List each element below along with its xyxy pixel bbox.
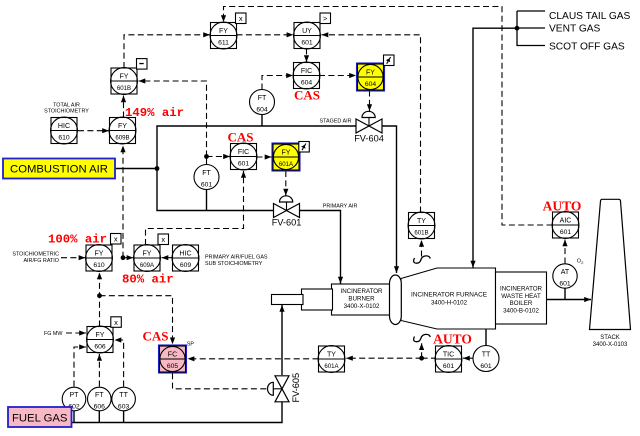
instrument FY 609B <box>109 117 136 144</box>
instrument FY 604 <box>357 63 384 90</box>
wire FT601 process tap <box>206 190 208 211</box>
signal junction to FIC601 <box>207 156 231 158</box>
label PRIMARY AIR <box>323 204 358 210</box>
signal junction over down to FC605 <box>100 296 173 345</box>
svg-text:UY: UY <box>302 28 312 35</box>
valve FV-604 staged air <box>354 111 384 143</box>
label CLAUS TAIL GAS <box>549 11 631 22</box>
instrument HIC 610 <box>51 117 78 144</box>
svg-text:TT: TT <box>482 351 491 358</box>
vessel incinerator furnace 3400-H-0102 <box>401 268 496 329</box>
label AUTO near AIC601 <box>543 199 582 214</box>
function box high-select for UY601 <box>320 13 331 24</box>
instrument FY 606 <box>87 326 114 353</box>
svg-text:BURNER: BURNER <box>348 296 375 303</box>
svg-text:FV-601: FV-601 <box>272 218 302 228</box>
label AUTO near TIC601 <box>433 332 472 347</box>
function box multiply for FY611 <box>236 13 247 24</box>
svg-text:601: 601 <box>443 363 455 370</box>
svg-text:FT: FT <box>95 392 104 399</box>
instrument FT 606 <box>88 387 112 411</box>
svg-text:PRIMARY AIR: PRIMARY AIR <box>323 204 358 210</box>
signal FT601 to junction <box>206 157 208 165</box>
svg-text:603: 603 <box>118 403 130 410</box>
valve FV-605 fuel gas <box>268 373 302 403</box>
svg-text:TT: TT <box>119 392 128 399</box>
svg-text:FY: FY <box>219 28 228 35</box>
valve FV-601 primary air <box>272 196 302 228</box>
svg-text:601: 601 <box>238 161 250 168</box>
svg-text:149% air: 149% air <box>125 106 184 120</box>
svg-text:601: 601 <box>559 280 571 287</box>
signal junction up to thermocouple <box>421 343 423 358</box>
signal TIC601 junction to TY601A <box>346 357 422 359</box>
svg-text:100% air: 100% air <box>48 233 107 247</box>
signal FY601B up over to FY611 <box>124 35 210 68</box>
svg-text:3400-X-0102: 3400-X-0102 <box>344 303 380 310</box>
node junction FY610 output <box>121 255 126 260</box>
signal HIC610 to FY609B <box>78 130 109 132</box>
label 80% air <box>122 273 174 287</box>
wire combined gas line to furnace <box>473 28 517 267</box>
label CAS near FC605 <box>142 329 168 344</box>
wire TT601 furnace tap <box>485 329 487 346</box>
svg-text:FV-604: FV-604 <box>354 134 384 144</box>
svg-text:604: 604 <box>301 80 313 87</box>
svg-text:TIC: TIC <box>443 351 454 358</box>
svg-text:x: x <box>114 234 118 243</box>
label CAS near FIC604 <box>294 88 320 103</box>
instrument FY 611 <box>210 22 237 49</box>
signal junction to FY609A <box>123 257 133 259</box>
wire TT603 tap <box>123 411 125 423</box>
signal FY611 to UY601 <box>237 34 294 36</box>
signal TT603 to FY606 <box>115 340 124 387</box>
svg-text:AT: AT <box>561 269 570 276</box>
instrument TY 601B <box>408 212 435 239</box>
svg-text:FY: FY <box>142 250 151 257</box>
instrument FIC 604 <box>293 62 320 89</box>
instrument TT 601 <box>473 346 499 372</box>
svg-text:FUEL GAS: FUEL GAS <box>12 413 68 425</box>
svg-text:604: 604 <box>256 106 268 113</box>
node gas header junction <box>515 26 520 31</box>
label STAGED AIR <box>320 119 352 125</box>
signal AIC601 bus to FY611 <box>224 7 553 226</box>
vessel stack 3400-X-0103 <box>590 199 631 348</box>
label STOICHIOMETRIC AIR/FG RATIO <box>12 251 59 263</box>
wire gas header bracket <box>517 11 545 46</box>
signal FY610 up to FY609B <box>122 146 124 258</box>
signal ratio setpoint to FY610 <box>61 257 85 259</box>
svg-text:601: 601 <box>201 181 213 188</box>
svg-text:INCINERATOR FURNACE: INCINERATOR FURNACE <box>411 291 487 298</box>
signal PT602 to FY606 <box>74 347 86 387</box>
instrument UY 601 <box>294 22 321 49</box>
svg-text:AUTO: AUTO <box>433 332 472 347</box>
wire AT601 stack tap <box>564 264 566 300</box>
wire primary air from FV-601 to burner top <box>298 211 341 284</box>
node junction TIC input <box>419 356 424 361</box>
svg-text:BOILER: BOILER <box>510 300 533 307</box>
svg-text:FG MW: FG MW <box>44 331 63 337</box>
signal thermocouple up to TY601B <box>421 240 423 257</box>
signal FT606 to FY606 <box>98 354 100 387</box>
signal HIC609 to FY609A <box>162 257 173 259</box>
svg-text:601A: 601A <box>279 161 294 168</box>
wire FT604 process tap <box>261 115 263 127</box>
svg-text:STACK: STACK <box>600 335 620 341</box>
svg-text:>: > <box>323 14 328 23</box>
signal FY604 to FV-604 actuator <box>369 91 371 112</box>
svg-text:FIC: FIC <box>238 149 249 156</box>
svg-text:FY: FY <box>281 149 290 156</box>
signal FC605 to FV-605 actuator <box>173 373 268 389</box>
svg-text:3400-H-0102: 3400-H-0102 <box>431 299 468 306</box>
signal AT601 up to AIC601 <box>564 240 566 264</box>
function box multiply for FY610 <box>111 234 122 245</box>
function box valve-char for FY601A <box>299 142 310 153</box>
label O2 analyzer <box>577 258 584 265</box>
svg-text:609B: 609B <box>115 135 129 142</box>
signal TY601B up over to UY601 <box>322 35 421 213</box>
svg-text:STOICHIOMETRY: STOICHIOMETRY <box>44 109 89 115</box>
signal FY601A to FV-601 actuator <box>285 171 287 196</box>
instrument FY 601A <box>272 143 299 170</box>
svg-text:FY: FY <box>94 250 103 257</box>
svg-text:TY: TY <box>327 351 336 358</box>
svg-text:SUB STOICHIOMETRY: SUB STOICHIOMETRY <box>205 261 263 267</box>
svg-text:610: 610 <box>93 262 105 269</box>
svg-text:SCOT OFF GAS: SCOT OFF GAS <box>549 42 625 53</box>
svg-text:601: 601 <box>480 363 492 370</box>
svg-text:2: 2 <box>581 260 583 265</box>
function box multiply for FY606 <box>111 317 122 328</box>
instrument FY 601B <box>111 68 138 95</box>
node combustion air junction <box>155 166 160 171</box>
function box multiply for FY609A <box>158 234 169 245</box>
instrument FT 604 <box>250 90 275 115</box>
function box minus for FY601B <box>137 59 148 70</box>
svg-text:HIC: HIC <box>58 123 70 130</box>
node junction FY606 output <box>97 293 102 298</box>
signal TT601 to TIC601 <box>463 357 473 359</box>
svg-text:601: 601 <box>301 40 313 47</box>
svg-text:601B: 601B <box>117 85 131 92</box>
wire combustion air supply line from label to junction <box>103 168 157 170</box>
wire fuel gas riser valve to burner gun <box>281 305 283 375</box>
wire FT606 tap <box>98 411 100 423</box>
svg-text:AUTO: AUTO <box>543 199 582 214</box>
svg-text:PT: PT <box>69 392 79 399</box>
instrument FIC 601 <box>230 143 257 170</box>
instrument AT 601 <box>553 264 577 288</box>
svg-text:609A: 609A <box>140 262 155 269</box>
svg-text:COMBUSTION AIR: COMBUSTION AIR <box>10 164 108 176</box>
svg-text:AIC: AIC <box>560 217 572 224</box>
label COMBUSTION AIR <box>3 159 115 179</box>
vessel burner fuel gun inner <box>272 295 304 305</box>
svg-text:CAS: CAS <box>227 130 253 145</box>
svg-text:CAS: CAS <box>142 329 168 344</box>
vessel burner mounting flange oval <box>390 275 402 325</box>
vessel incinerator burner box 3400-X-0102 <box>332 284 396 315</box>
svg-text:x: x <box>239 14 243 23</box>
svg-text:INCINERATOR: INCINERATOR <box>500 285 543 292</box>
wire PT602 tap <box>73 411 75 423</box>
instrument TY 601A <box>318 346 345 373</box>
svg-text:STOICHIOMETRIC: STOICHIOMETRIC <box>12 251 59 257</box>
signal FY609A up over to FIC601 bottom <box>146 171 244 245</box>
svg-text:x: x <box>114 318 118 327</box>
signal UY601 down to FIC604 <box>306 49 308 63</box>
label 149% air <box>125 106 184 120</box>
svg-text:FC: FC <box>168 351 177 358</box>
instrument FC 605 <box>159 345 186 372</box>
instrument TT 603 <box>112 387 136 411</box>
label FG MW <box>44 331 63 337</box>
instrument AIC 601 <box>552 212 579 239</box>
wire fuel gas line from label <box>71 402 282 423</box>
label CAS near FIC601 <box>227 130 253 145</box>
svg-text:FT: FT <box>258 95 267 102</box>
svg-text:FT: FT <box>202 170 211 177</box>
svg-text:FY: FY <box>119 73 128 80</box>
svg-text:611: 611 <box>218 40 229 47</box>
svg-text:CAS: CAS <box>294 88 320 103</box>
svg-text:601B: 601B <box>414 230 428 237</box>
svg-text:3400-B-0102: 3400-B-0102 <box>503 308 539 315</box>
svg-text:x: x <box>161 235 165 244</box>
signal FY609B to FY601B <box>123 96 125 118</box>
svg-text:601A: 601A <box>324 363 339 370</box>
label SCOT OFF GAS <box>549 42 625 53</box>
svg-text:AIR/FG RATIO: AIR/FG RATIO <box>23 258 59 264</box>
label SP setpoint <box>187 342 194 348</box>
svg-text:FY: FY <box>118 123 127 130</box>
instrument FY 610 <box>86 245 113 272</box>
signal junction to TIC601 <box>422 357 436 359</box>
svg-text:TY: TY <box>417 218 426 225</box>
svg-text:HIC: HIC <box>179 250 191 257</box>
svg-text:PRIMARY AIR/FUEL GAS: PRIMARY AIR/FUEL GAS <box>205 254 268 260</box>
svg-text:FY: FY <box>95 332 104 339</box>
label 100% air <box>48 233 107 247</box>
signal FG MW to FY606 <box>66 332 86 334</box>
svg-text:610: 610 <box>58 135 70 142</box>
svg-text:604: 604 <box>365 81 377 88</box>
svg-text:3400-X-0103: 3400-X-0103 <box>593 342 628 348</box>
label FUEL GAS <box>8 407 72 427</box>
wire flue gas duct boiler to stack <box>547 299 592 301</box>
symbol thermocouple squiggle near TIC <box>414 334 431 341</box>
label VENT GAS <box>549 24 601 35</box>
label PRIMARY AIR/FUEL GAS SUB STOICHIOMETRY <box>205 254 268 266</box>
signal FT604 to FIC604 <box>262 76 293 90</box>
instrument HIC 609 <box>172 245 199 272</box>
instrument PT 602 <box>62 387 86 411</box>
svg-text:605: 605 <box>167 363 179 370</box>
node junction FT601 signal <box>204 154 209 159</box>
vessel incinerator waste heat boiler 3400-B-0102 <box>496 272 547 324</box>
function box valve-char for FY604 <box>384 55 395 66</box>
label TOTAL AIR STOICHIOMETRY <box>44 103 89 115</box>
vessel burner fuel gun outer <box>302 289 333 310</box>
wire staged air branch up and across to FV-604 <box>157 126 356 169</box>
svg-text:606: 606 <box>94 403 106 410</box>
svg-text:WASTE HEAT: WASTE HEAT <box>501 293 541 300</box>
svg-text:INCINERATOR: INCINERATOR <box>340 288 383 295</box>
svg-text:80% air: 80% air <box>122 273 174 287</box>
svg-text:CLAUS TAIL GAS: CLAUS TAIL GAS <box>549 11 631 22</box>
svg-text:FY: FY <box>366 69 375 76</box>
svg-text:FV-605: FV-605 <box>291 373 301 403</box>
svg-text:601: 601 <box>560 229 572 236</box>
instrument FY 609A <box>134 245 161 272</box>
signal FIC601 to FY601A <box>257 156 272 158</box>
wire staged air from FV-604 to furnace inlet oval <box>382 126 397 273</box>
instrument TIC 601 <box>435 346 462 373</box>
signal TY601A to FC605 <box>188 358 319 360</box>
signal junction up over to FY601B <box>139 81 207 157</box>
wire primary air branch down and across to FV-601 <box>157 169 274 211</box>
symbol thermocouple squiggle below TY601B <box>414 256 431 263</box>
svg-text:606: 606 <box>94 344 106 351</box>
signal FY606 up to FY610 <box>99 273 101 327</box>
svg-text:VENT GAS: VENT GAS <box>549 24 601 35</box>
instrument FT 601 <box>194 165 219 190</box>
svg-text:FIC: FIC <box>301 68 312 75</box>
signal FIC604 to FY604 <box>319 75 356 77</box>
svg-text:609: 609 <box>180 262 192 269</box>
svg-text:STAGED AIR: STAGED AIR <box>320 119 352 125</box>
svg-text:SP: SP <box>187 342 194 348</box>
